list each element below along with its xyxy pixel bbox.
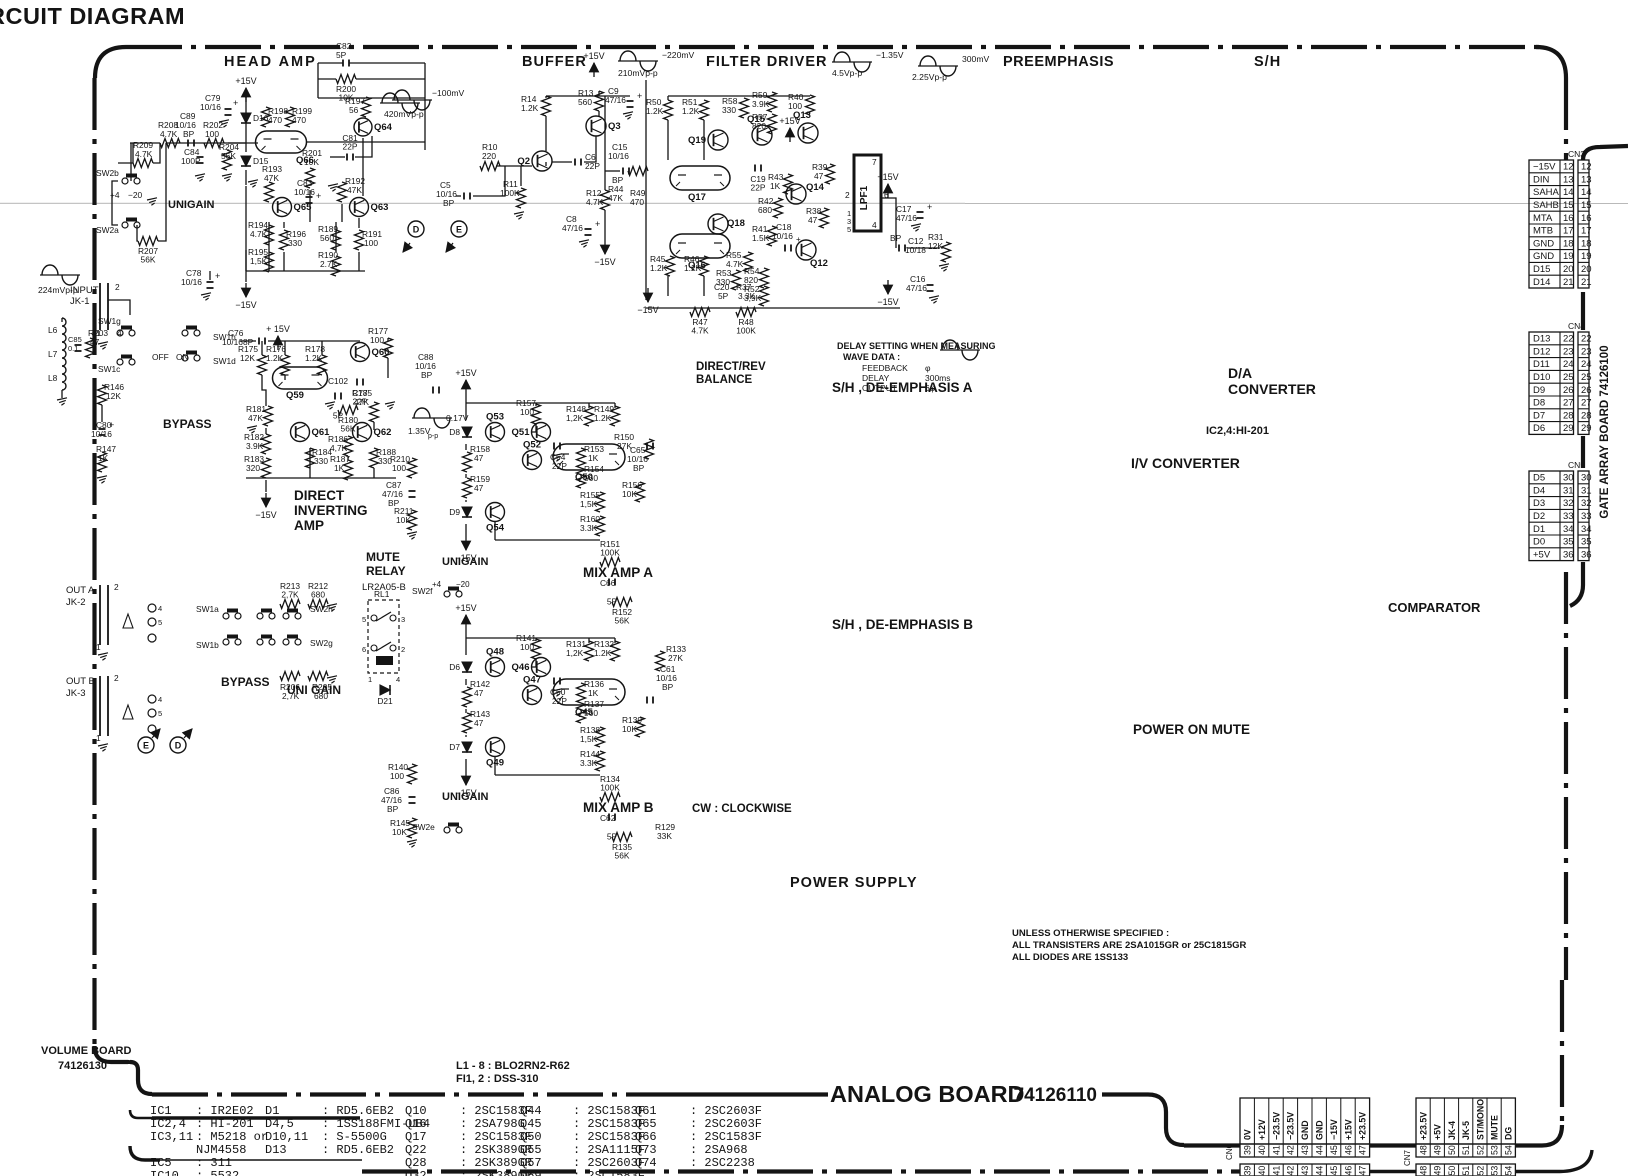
svg-text:C85: C85 <box>68 335 82 344</box>
svg-text:33: 33 <box>1563 511 1574 522</box>
svg-text:0.17V: 0.17V <box>446 413 469 423</box>
svg-text:+: + <box>215 271 220 281</box>
svg-text:L8: L8 <box>48 373 58 383</box>
svg-text:4.7K: 4.7K <box>160 129 178 139</box>
svg-text:C102: C102 <box>328 376 348 386</box>
svg-text:−20: −20 <box>128 190 143 200</box>
svg-text:DIN: DIN <box>1533 174 1550 185</box>
svg-text:D10,11: D10,11 <box>265 1130 308 1144</box>
svg-text:L6: L6 <box>48 325 58 335</box>
svg-text:30: 30 <box>1563 473 1574 484</box>
svg-text:−15V: −15V <box>637 305 658 315</box>
svg-text:Q65: Q65 <box>635 1117 657 1131</box>
svg-text:Q48: Q48 <box>486 647 504 658</box>
svg-text:47: 47 <box>474 483 484 493</box>
svg-text:300mV: 300mV <box>962 54 989 64</box>
svg-text:5: 5 <box>158 618 162 627</box>
svg-text:100: 100 <box>364 238 378 248</box>
svg-text:ANALOG BOARD: ANALOG BOARD <box>830 1081 1025 1107</box>
svg-text:470: 470 <box>268 115 282 125</box>
svg-text:UNLESS OTHERWISE SPECIFIED :: UNLESS OTHERWISE SPECIFIED : <box>1012 928 1169 939</box>
svg-text:D/A: D/A <box>1228 365 1252 381</box>
svg-text:7: 7 <box>872 157 877 167</box>
svg-text:Q62: Q62 <box>374 427 392 438</box>
svg-text:12K: 12K <box>928 241 943 251</box>
svg-text:C66: C66 <box>600 578 616 588</box>
svg-text:GND: GND <box>1533 238 1554 249</box>
svg-text:OUT B: OUT B <box>66 676 95 687</box>
svg-text:47/16: 47/16 <box>896 213 917 223</box>
svg-text:Q45: Q45 <box>575 707 594 718</box>
svg-text:2: 2 <box>401 645 405 654</box>
svg-text:D0: D0 <box>1533 537 1545 548</box>
svg-text:1.2K: 1.2K <box>266 353 284 363</box>
svg-text:4.7K: 4.7K <box>691 326 709 336</box>
svg-text:12K: 12K <box>240 353 255 363</box>
svg-text:WAVE DATA :: WAVE DATA : <box>843 352 900 362</box>
svg-text:36: 36 <box>1581 549 1592 560</box>
svg-text:46: 46 <box>1343 1166 1353 1176</box>
svg-text:D14: D14 <box>1533 277 1550 288</box>
svg-text:15: 15 <box>1581 200 1592 211</box>
svg-text:470: 470 <box>630 197 644 207</box>
svg-text:IC1: IC1 <box>150 1104 172 1118</box>
svg-text:44: 44 <box>1315 1145 1325 1155</box>
svg-text:SAHB: SAHB <box>1533 200 1559 211</box>
svg-text:47K: 47K <box>248 413 263 423</box>
svg-text:Q73: Q73 <box>635 1143 657 1157</box>
svg-text:: 2SC2603F: : 2SC2603F <box>690 1117 762 1131</box>
svg-text:27: 27 <box>1581 398 1592 409</box>
svg-text:26: 26 <box>1563 385 1574 396</box>
svg-text:2: 2 <box>114 582 119 592</box>
svg-text:23: 23 <box>1563 346 1574 357</box>
svg-text:41: 41 <box>1271 1145 1281 1155</box>
svg-text:: 2SC1583F: : 2SC1583F <box>690 1130 762 1144</box>
svg-text:10/18: 10/18 <box>905 245 926 255</box>
svg-text:31: 31 <box>1581 485 1592 496</box>
svg-text:17: 17 <box>1581 226 1592 237</box>
svg-text:Q50: Q50 <box>520 1130 542 1144</box>
svg-text:12K: 12K <box>106 391 121 401</box>
svg-text:Q64: Q64 <box>374 122 393 133</box>
svg-text:D9: D9 <box>449 507 460 517</box>
svg-text:12: 12 <box>1581 162 1592 173</box>
svg-text:Q18: Q18 <box>727 218 745 229</box>
svg-text:51: 51 <box>1461 1145 1471 1155</box>
svg-text:OFF: OFF <box>152 352 169 362</box>
svg-text:20: 20 <box>1563 264 1574 275</box>
svg-text:25: 25 <box>1563 372 1574 383</box>
svg-text:48: 48 <box>1419 1145 1429 1155</box>
svg-text:16: 16 <box>1581 213 1592 224</box>
svg-text:330: 330 <box>722 105 736 115</box>
svg-text:+15V: +15V <box>1343 1119 1353 1140</box>
svg-text:47: 47 <box>814 171 824 181</box>
svg-text:+5V: +5V <box>1433 1124 1443 1140</box>
svg-text:FI1, 2 : DSS-310: FI1, 2 : DSS-310 <box>456 1073 539 1085</box>
svg-text:Q51: Q51 <box>512 427 531 438</box>
svg-text:CN6: CN6 <box>1225 1143 1234 1160</box>
svg-text:Q3: Q3 <box>608 121 621 132</box>
svg-text:S/H , DE-EMPHASIS B: S/H , DE-EMPHASIS B <box>832 617 973 632</box>
svg-text:6: 6 <box>362 645 366 654</box>
svg-text:: 311: : 311 <box>196 1156 232 1170</box>
svg-text:−15V: −15V <box>594 257 615 267</box>
svg-text:ALL TRANSISTERS ARE 2SA1015GR: ALL TRANSISTERS ARE 2SA1015GR or 25C1815… <box>1012 940 1247 951</box>
svg-text:680: 680 <box>311 590 325 600</box>
svg-text:MTB: MTB <box>1533 226 1553 237</box>
svg-text:C62: C62 <box>600 813 616 823</box>
svg-text:5: 5 <box>362 615 366 624</box>
svg-text:RCUIT DIAGRAM: RCUIT DIAGRAM <box>0 3 185 29</box>
svg-text:Q61: Q61 <box>635 1104 657 1118</box>
svg-text:13: 13 <box>1581 174 1592 185</box>
svg-text:+15V: +15V <box>455 368 476 378</box>
svg-text:UNIGAIN: UNIGAIN <box>442 791 489 803</box>
svg-text:2.25Vp-p: 2.25Vp-p <box>912 72 947 82</box>
svg-text:3.3K: 3.3K <box>738 291 756 301</box>
svg-text:−20: −20 <box>456 580 470 589</box>
svg-text:+: + <box>595 219 600 229</box>
svg-text:JK-5: JK-5 <box>1461 1121 1471 1140</box>
svg-text:Q59: Q59 <box>520 1169 542 1176</box>
svg-text:BP: BP <box>183 129 195 139</box>
svg-text:D: D <box>175 741 182 751</box>
svg-text:51: 51 <box>1461 1166 1471 1176</box>
svg-text:+15V: +15V <box>235 76 256 86</box>
svg-text:12: 12 <box>1563 162 1574 173</box>
svg-text:53: 53 <box>1490 1145 1500 1155</box>
svg-text:S/H , DE-EMPHASIS A: S/H , DE-EMPHASIS A <box>832 380 973 395</box>
svg-text:FILTER DRIVER: FILTER DRIVER <box>706 54 827 70</box>
svg-text:1.2K: 1.2K <box>594 413 612 423</box>
svg-text:SW1a: SW1a <box>196 604 219 614</box>
svg-text:D13: D13 <box>1533 334 1550 345</box>
svg-text:D10: D10 <box>1533 372 1550 383</box>
svg-text:4: 4 <box>872 220 877 230</box>
svg-text:56K: 56K <box>615 616 630 626</box>
svg-text:1: 1 <box>96 733 101 743</box>
svg-text:39: 39 <box>1243 1145 1253 1155</box>
svg-text:44: 44 <box>1315 1166 1325 1176</box>
svg-text:GND: GND <box>1533 251 1554 262</box>
svg-text:BYPASS: BYPASS <box>163 417 211 431</box>
svg-text:FEEDBACK: FEEDBACK <box>862 363 908 373</box>
svg-text:560: 560 <box>320 233 334 243</box>
svg-text:D: D <box>413 225 420 235</box>
svg-text:+23.5V: +23.5V <box>1419 1112 1429 1140</box>
svg-text:45: 45 <box>1329 1166 1339 1176</box>
svg-text:4.5Vp-p: 4.5Vp-p <box>832 68 862 78</box>
svg-text:MUTE: MUTE <box>1490 1115 1500 1140</box>
svg-text:: 2SC2603F: : 2SC2603F <box>690 1104 762 1118</box>
svg-text:ST/MONO: ST/MONO <box>1475 1099 1485 1140</box>
svg-text:1.2K: 1.2K <box>521 103 539 113</box>
svg-text:35: 35 <box>1581 537 1592 548</box>
svg-text:Q45: Q45 <box>520 1117 542 1131</box>
svg-text:BP: BP <box>662 682 674 692</box>
svg-text:26: 26 <box>1581 385 1592 396</box>
svg-text:CONVERTER: CONVERTER <box>1228 381 1316 397</box>
svg-text:56K: 56K <box>615 851 630 861</box>
svg-text:100: 100 <box>392 463 406 473</box>
svg-text:10K: 10K <box>392 827 407 837</box>
svg-text:22: 22 <box>1581 334 1592 345</box>
svg-text:+15V: +15V <box>877 172 898 182</box>
svg-text:PREEMPHASIS: PREEMPHASIS <box>1003 54 1114 70</box>
svg-text:29: 29 <box>1581 423 1592 434</box>
svg-text:56K: 56K <box>221 151 236 161</box>
svg-text:19: 19 <box>1563 251 1574 262</box>
svg-text:IC2,4:HI-201: IC2,4:HI-201 <box>1206 425 1269 437</box>
svg-text:+15V: +15V <box>583 51 604 61</box>
svg-text:4: 4 <box>158 695 162 704</box>
svg-text:D8: D8 <box>1533 398 1545 409</box>
svg-text:: HI-201: : HI-201 <box>196 1117 254 1131</box>
svg-text:46: 46 <box>1343 1145 1353 1155</box>
svg-text:LPF1: LPF1 <box>859 185 870 210</box>
svg-text:Q60: Q60 <box>372 347 390 358</box>
svg-text:SW2a: SW2a <box>96 225 119 235</box>
svg-text:INPUT: INPUT <box>70 285 99 296</box>
svg-text:−15V: −15V <box>255 510 276 520</box>
svg-text:+4: +4 <box>432 580 442 589</box>
svg-text:Q16: Q16 <box>405 1117 427 1131</box>
svg-text:36: 36 <box>1563 549 1574 560</box>
svg-text:+5V: +5V <box>1533 549 1551 560</box>
svg-text:D7: D7 <box>1533 410 1545 421</box>
svg-text:POWER SUPPLY: POWER SUPPLY <box>790 875 918 891</box>
svg-text:6φ: 6φ <box>925 383 936 393</box>
svg-text:22P: 22P <box>751 183 766 193</box>
svg-text:: 2SA968: : 2SA968 <box>690 1143 748 1157</box>
svg-text:INVERTING: INVERTING <box>294 503 368 518</box>
svg-text:2.7K: 2.7K <box>320 259 338 269</box>
svg-text:33: 33 <box>1581 511 1592 522</box>
svg-text:18: 18 <box>1581 238 1592 249</box>
svg-text:D8: D8 <box>449 427 460 437</box>
svg-text:1: 1 <box>368 675 372 684</box>
svg-text:+: + <box>233 98 238 108</box>
svg-text:SW1c: SW1c <box>98 364 120 374</box>
svg-text:56: 56 <box>349 105 359 115</box>
svg-text:: S-5500G: : S-5500G <box>322 1130 387 1144</box>
svg-text:AMP: AMP <box>294 518 324 533</box>
svg-text:D1: D1 <box>265 1104 279 1118</box>
svg-text:4.7K: 4.7K <box>135 149 153 159</box>
svg-text:Q52: Q52 <box>523 440 541 451</box>
svg-text:: RD5.6EB2: : RD5.6EB2 <box>322 1104 394 1118</box>
svg-text:100K: 100K <box>600 548 620 558</box>
svg-text:SAHA: SAHA <box>1533 187 1560 198</box>
svg-text:49: 49 <box>1433 1145 1443 1155</box>
svg-text:D13: D13 <box>265 1143 287 1157</box>
svg-text:D2: D2 <box>1533 511 1545 522</box>
svg-text:27K: 27K <box>668 653 683 663</box>
svg-text:Q59: Q59 <box>286 390 304 401</box>
svg-text:CW : CLOCKWISE: CW : CLOCKWISE <box>692 803 792 815</box>
svg-text:Q28: Q28 <box>405 1156 427 1170</box>
svg-text:47: 47 <box>474 453 484 463</box>
svg-text:Q46: Q46 <box>512 662 530 673</box>
svg-text:17: 17 <box>1563 226 1574 237</box>
svg-text:35: 35 <box>1563 537 1574 548</box>
svg-text:47: 47 <box>474 688 484 698</box>
svg-text:2: 2 <box>115 282 120 292</box>
svg-text:470: 470 <box>292 115 306 125</box>
svg-text:1.2K: 1.2K <box>594 648 612 658</box>
svg-text:: 2SC1583F: : 2SC1583F <box>573 1169 645 1176</box>
svg-text:D12: D12 <box>1533 346 1550 357</box>
svg-text:100K: 100K <box>736 326 756 336</box>
svg-text:SW1d: SW1d <box>213 356 236 366</box>
svg-text:10/16: 10/16 <box>200 102 221 112</box>
svg-text:4.7K: 4.7K <box>250 229 268 239</box>
svg-text:NJM4558: NJM4558 <box>196 1143 246 1157</box>
svg-text:50: 50 <box>1447 1145 1457 1155</box>
svg-text:13: 13 <box>1563 174 1574 185</box>
svg-text:JK-2: JK-2 <box>66 597 86 608</box>
svg-text:10/16: 10/16 <box>294 187 315 197</box>
svg-text:40: 40 <box>1257 1145 1267 1155</box>
svg-text:Q44: Q44 <box>520 1104 542 1118</box>
svg-text:43: 43 <box>1300 1166 1310 1176</box>
svg-text:IC3,11: IC3,11 <box>150 1130 193 1144</box>
svg-text:−15V: −15V <box>1329 1119 1339 1140</box>
svg-text:320: 320 <box>246 463 260 473</box>
svg-text:330: 330 <box>288 238 302 248</box>
svg-text:OUT A: OUT A <box>66 585 95 596</box>
svg-text:Q63: Q63 <box>371 202 389 213</box>
svg-text:2,7K: 2,7K <box>281 590 299 600</box>
svg-text:1K: 1K <box>588 453 599 463</box>
svg-text:1.2K: 1.2K <box>682 106 700 116</box>
svg-text:CN7: CN7 <box>1403 1149 1412 1166</box>
svg-text:5P: 5P <box>718 291 729 301</box>
svg-text:Q12: Q12 <box>810 258 828 269</box>
svg-text:54: 54 <box>1504 1166 1514 1176</box>
svg-text:1K: 1K <box>770 181 781 191</box>
svg-text:47: 47 <box>90 337 100 347</box>
svg-text:−23.5V: −23.5V <box>1271 1112 1281 1140</box>
svg-text:14: 14 <box>1581 187 1592 198</box>
svg-text:20: 20 <box>1581 264 1592 275</box>
svg-text:33K: 33K <box>657 831 672 841</box>
svg-text:: M5218 or: : M5218 or <box>196 1130 268 1144</box>
svg-text:Q15: Q15 <box>747 114 766 125</box>
svg-text:28: 28 <box>1563 410 1574 421</box>
svg-text:SW2f: SW2f <box>412 586 433 596</box>
svg-text:JK-4: JK-4 <box>1447 1121 1457 1140</box>
svg-text:420mVp-p: 420mVp-p <box>384 109 424 119</box>
svg-text:15: 15 <box>1563 200 1574 211</box>
svg-text:−23.5V: −23.5V <box>1286 1112 1296 1140</box>
svg-text:Q50: Q50 <box>575 472 593 483</box>
svg-text:560: 560 <box>578 97 592 107</box>
svg-text:100: 100 <box>370 335 384 345</box>
svg-text:34: 34 <box>1563 524 1574 535</box>
svg-text:47K: 47K <box>608 193 623 203</box>
svg-text:+: + <box>316 191 321 201</box>
svg-text:JK-3: JK-3 <box>66 688 86 699</box>
svg-text:74126110: 74126110 <box>1014 1085 1098 1106</box>
svg-text:D7: D7 <box>449 742 460 752</box>
svg-text:1,5K: 1,5K <box>250 256 268 266</box>
svg-text:27: 27 <box>1563 398 1574 409</box>
svg-text:2: 2 <box>845 190 850 200</box>
svg-text:300ms: 300ms <box>925 373 951 383</box>
svg-text:41: 41 <box>1271 1166 1281 1176</box>
svg-text:Q32: Q32 <box>405 1169 427 1176</box>
svg-text:D6: D6 <box>449 662 460 672</box>
svg-text:SW1g: SW1g <box>98 316 121 326</box>
svg-text:47: 47 <box>1358 1166 1368 1176</box>
svg-text:BP: BP <box>387 804 399 814</box>
svg-text:2: 2 <box>114 673 119 683</box>
svg-text:Q74: Q74 <box>635 1156 657 1170</box>
svg-text:MTA: MTA <box>1533 213 1553 224</box>
svg-text:10/16: 10/16 <box>608 151 629 161</box>
svg-text:4: 4 <box>158 604 162 613</box>
svg-text:+12V: +12V <box>1257 1119 1267 1140</box>
svg-text:Q57: Q57 <box>520 1156 542 1170</box>
svg-text:Q14: Q14 <box>806 182 825 193</box>
svg-text:p-p: p-p <box>428 433 438 440</box>
svg-text:Q13: Q13 <box>793 110 811 121</box>
svg-text:10/16: 10/16 <box>91 429 112 439</box>
svg-text:Q17: Q17 <box>405 1130 427 1144</box>
svg-text:16: 16 <box>1563 213 1574 224</box>
svg-text:32: 32 <box>1563 498 1574 509</box>
svg-text:100K: 100K <box>600 783 620 793</box>
svg-text:47K: 47K <box>354 397 369 407</box>
svg-text:BP: BP <box>443 198 455 208</box>
svg-text:32: 32 <box>1581 498 1592 509</box>
svg-text:SW1b: SW1b <box>196 640 219 650</box>
svg-text:RL1: RL1 <box>374 589 390 599</box>
svg-text:5: 5 <box>158 709 162 718</box>
svg-text:4: 4 <box>396 675 400 684</box>
svg-text:56K: 56K <box>141 255 156 265</box>
svg-text:+15V: +15V <box>455 603 476 613</box>
svg-text:I/V CONVERTER: I/V CONVERTER <box>1131 455 1240 471</box>
svg-text:D6: D6 <box>1533 423 1545 434</box>
svg-text:48: 48 <box>1419 1166 1429 1176</box>
svg-text:74126130: 74126130 <box>58 1060 107 1072</box>
svg-text:D5: D5 <box>1533 473 1545 484</box>
svg-text:31: 31 <box>1563 485 1574 496</box>
svg-text:COMPARATOR: COMPARATOR <box>1388 600 1481 615</box>
svg-text:−15V: −15V <box>1533 162 1556 173</box>
svg-text:UNIGAIN: UNIGAIN <box>442 556 489 568</box>
svg-text:+23.5V: +23.5V <box>1358 1112 1368 1140</box>
svg-text:: IR2E02: : IR2E02 <box>196 1104 254 1118</box>
svg-text:21: 21 <box>1581 277 1592 288</box>
svg-text:D9: D9 <box>1533 385 1545 396</box>
svg-text:54: 54 <box>1504 1145 1514 1155</box>
svg-text:: RD5.6EB2: : RD5.6EB2 <box>322 1143 394 1157</box>
svg-text:19: 19 <box>1581 251 1592 262</box>
svg-text:−15V: −15V <box>235 300 256 310</box>
svg-text:42: 42 <box>1286 1166 1296 1176</box>
svg-text:POWER ON MUTE: POWER ON MUTE <box>1133 722 1250 737</box>
svg-text:47/16: 47/16 <box>906 283 927 293</box>
svg-text:L1 - 8 : BLO2RN2-R62: L1 - 8 : BLO2RN2-R62 <box>456 1060 570 1072</box>
svg-text:1,2K: 1,2K <box>566 413 584 423</box>
svg-text:40: 40 <box>1257 1166 1267 1176</box>
svg-text:39: 39 <box>1243 1166 1253 1176</box>
